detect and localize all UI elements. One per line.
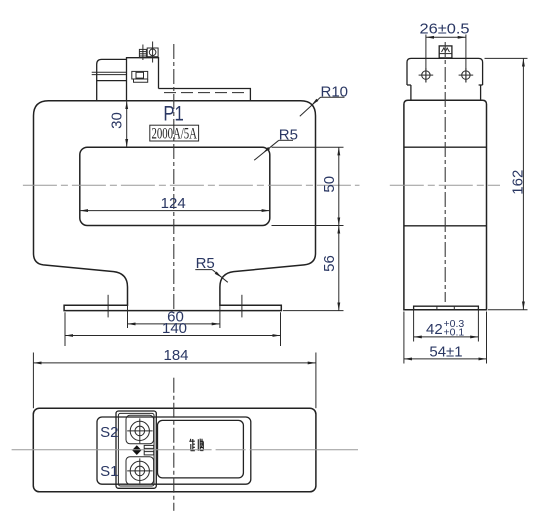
- mounting plate (top, to the right): [159, 89, 251, 102]
- radius label R5 (neck): [195, 255, 228, 282]
- terminal block inner: [118, 413, 154, 486]
- dimension 42 +0.3/+0.1: [414, 308, 479, 342]
- secondary terminal block: [127, 58, 159, 101]
- svg-text:184: 184: [163, 347, 188, 364]
- side body: [404, 100, 487, 310]
- terminal block outer: [116, 411, 156, 488]
- terminal screw (side view, in block): [132, 71, 148, 82]
- front body outline: [34, 101, 316, 311]
- side foot land: [414, 306, 479, 310]
- svg-text:162: 162: [509, 170, 526, 195]
- front vertical centerline: [173, 44, 175, 314]
- side horizontal centerline: [390, 184, 500, 186]
- rating box 2000A/5A: [150, 125, 199, 142]
- svg-text:56: 56: [321, 255, 338, 272]
- top tab with screw: [439, 46, 452, 58]
- svg-text:54±1: 54±1: [429, 343, 462, 360]
- dimension 26±0.5: [420, 21, 470, 83]
- terminal screw head (top): [147, 42, 158, 63]
- bracket screw hole right: [459, 68, 474, 83]
- svg-text:26±0.5: 26±0.5: [420, 21, 470, 38]
- svg-text:+0.1: +0.1: [444, 327, 465, 339]
- svg-text:P1: P1: [163, 102, 184, 126]
- dimension 54±1: [404, 312, 487, 364]
- nameplate window: [158, 420, 244, 478]
- terminal connector block (left, on top): [97, 59, 127, 101]
- screw target S2: [127, 418, 152, 443]
- bracket screw hole left: [419, 68, 434, 83]
- side vertical centerline: [444, 42, 446, 302]
- dimension 140: [65, 312, 281, 346]
- spring washer on top: [139, 45, 146, 61]
- svg-text:42: 42: [426, 321, 443, 338]
- svg-text:140: 140: [162, 320, 187, 337]
- dimension 60: [128, 305, 220, 328]
- bottom horizontal centerline: [12, 449, 358, 451]
- screw target S1: [127, 458, 152, 483]
- svg-text:124: 124: [161, 195, 186, 212]
- window aperture: [80, 147, 270, 225]
- terminal pad S1: [126, 457, 154, 485]
- dimension 184: [33, 347, 316, 408]
- radius label R5 (window): [254, 126, 298, 160]
- small screw side symbol: [144, 445, 154, 455]
- terminal pad S2: [126, 415, 154, 444]
- bottom recess: [97, 417, 251, 484]
- connector wires: [92, 72, 127, 74]
- radius label R10: [300, 83, 348, 116]
- svg-text:50: 50: [321, 176, 338, 193]
- foot hole centermark right: [241, 295, 243, 318]
- dimension 162: [485, 58, 528, 309]
- svg-text:30: 30: [108, 112, 125, 129]
- front horizontal centerline: [23, 184, 360, 186]
- dimension 30: [108, 101, 126, 147]
- svg-text:S2: S2: [100, 424, 118, 441]
- nameplate text: [190, 439, 204, 451]
- foot hole centermark left: [107, 295, 109, 318]
- polarity diamond: [132, 445, 141, 455]
- dimension 50: [272, 147, 344, 225]
- bottom vertical centerline: [173, 378, 175, 511]
- bottom outer body: [33, 408, 316, 492]
- dimension 56: [283, 226, 344, 311]
- side bracket: [407, 58, 483, 100]
- svg-text:2000A/5A: 2000A/5A: [151, 125, 197, 142]
- dimension 124: [80, 195, 270, 212]
- svg-text:S1: S1: [100, 463, 118, 480]
